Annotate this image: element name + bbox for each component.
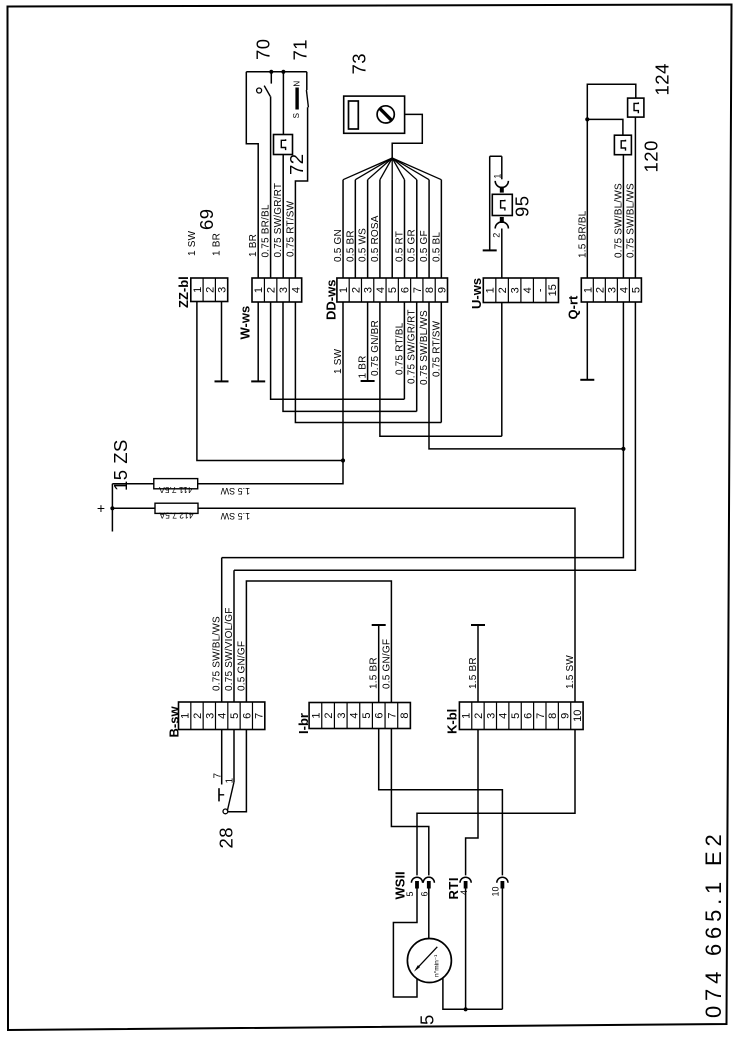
junction on top bus at box 72 branch [281,70,285,74]
svg-text:1 SW: 1 SW [187,230,198,256]
svg-text:2: 2 [323,712,335,718]
switch S70 stub [270,72,272,84]
svg-text:-: - [535,288,547,292]
svg-text:1: 1 [485,287,497,293]
wire Q-rt pin5 down to B-sw pin5 (line2) [234,302,635,570]
svg-text:1: 1 [253,287,265,293]
svg-text:0.5 BL: 0.5 BL [431,232,442,262]
svg-text:1.5 SW: 1.5 SW [220,511,250,521]
wire W-ws pin3 to DD-ws pin7 [283,302,417,411]
wire fuse 412 to K-bl pin10 [198,508,575,702]
magnet switch 71 blade [306,90,308,107]
wire B-sw pin5 up [233,570,235,702]
svg-text:+: + [97,500,105,516]
svg-text:0.75 BR/BL: 0.75 BR/BL [261,204,272,257]
svg-text:RTI: RTI [446,877,461,899]
svg-text:5: 5 [405,891,415,896]
wire U-ws pin2 down [501,303,503,436]
svg-text:1: 1 [582,287,594,293]
svg-text:71: 71 [290,39,311,61]
wire B-sw pin5 down to switch 28 blade [233,730,235,783]
inline connector WSII terminal 5 [411,877,422,883]
svg-text:2: 2 [594,287,606,293]
svg-text:7: 7 [386,712,398,718]
wire fuse 412 left lead [112,507,155,509]
svg-text:5: 5 [387,287,399,293]
connector Q-rt [581,278,641,302]
junction Q-rt pin1 branch [585,117,589,121]
svg-text:1: 1 [338,287,350,293]
svg-text:0.5 GN: 0.5 GN [333,229,344,262]
tachometer needle arrow [417,947,438,969]
wire from top bus to pulse box 72 [282,72,284,135]
connector half-circle 2 (device 95 bottom) [500,217,504,223]
svg-text:0.5 RT: 0.5 RT [394,231,405,262]
wire W-ws pin1 with end bar [257,302,259,381]
svg-text:95: 95 [512,195,533,217]
svg-text:10: 10 [490,886,500,896]
junction DD-ws pin8 line at Q-rt pin4 column [621,447,625,451]
svg-text:0.5 GF: 0.5 GF [419,230,430,262]
svg-text:0.75 SW/VIOL/GF: 0.75 SW/VIOL/GF [224,607,235,691]
svg-text:2: 2 [204,287,216,293]
svg-text:3: 3 [363,287,375,293]
svg-text:10: 10 [572,710,584,722]
svg-text:5: 5 [510,713,522,719]
wire DD-ws pin9 down [440,302,442,423]
svg-text:0.75 SW/BL/WS: 0.75 SW/BL/WS [212,616,223,691]
inline connector WSII terminal 6 [423,877,434,883]
pulse box 124 [628,98,644,117]
svg-text:7: 7 [254,713,266,719]
svg-text:7: 7 [535,713,547,719]
svg-text:1: 1 [310,712,322,718]
svg-text:6: 6 [420,891,430,896]
switch S70 contact circle [257,88,262,93]
wire box 120 to Q-rt pin4 [622,155,624,278]
device 73 inner rectangle [349,101,359,129]
connector ZZ-bl [191,278,228,302]
svg-text:2: 2 [473,713,485,719]
svg-text:1 BR: 1 BR [212,233,223,256]
svg-text:0.75 RT/SW: 0.75 RT/SW [431,320,442,377]
wire DD-ws pin8 to Q-rt pin4 column [429,302,623,449]
svg-text:2: 2 [192,713,204,719]
magnet switch 71 feed wire [306,72,308,90]
wire W-ws pin2 upper [270,96,272,278]
svg-text:412 7.5A: 412 7.5A [159,511,193,521]
svg-text:3: 3 [606,287,618,293]
svg-text:0.75 SW/GR/RT: 0.75 SW/GR/RT [407,309,418,384]
svg-text:DD-ws: DD-ws [324,280,339,320]
wire WSII-5 to tachometer (S-path) [393,889,417,998]
svg-text:8: 8 [424,287,436,293]
wire I-br pin7 down to WSII-6 [391,729,428,876]
wire stub with end bar (device 95 side branch) [490,156,502,250]
wire DD-ws pin6 down [403,302,405,399]
magnet 71 bar [295,88,298,110]
wire W-ws pin4 to DD-ws pin9 [295,302,441,423]
svg-text:4: 4 [348,712,360,718]
wire DD-ws pin3 with end bar [367,302,369,381]
connector half-circle 1 (device 95 top) [495,181,508,188]
svg-text:3: 3 [278,287,290,293]
svg-text:6: 6 [399,287,411,293]
wire I-br pin6 down to terminal 10 column [379,729,503,876]
inline connector terminal 10 [497,877,508,883]
switch 28 pivot circle [223,809,228,814]
svg-text:5: 5 [361,712,373,718]
tachometer gauge circle [407,939,451,983]
wire DD-ws pin7 down [416,302,418,411]
svg-text:4: 4 [522,287,534,293]
wire W-ws pin4 upper [295,107,307,278]
svg-text:0.5 BR: 0.5 BR [345,230,356,262]
svg-text:2: 2 [266,287,278,293]
svg-text:I-br: I-br [296,713,311,734]
svg-text:N: N [293,81,302,87]
svg-text:2: 2 [497,287,509,293]
inline connector RTI terminal 4 [460,877,471,883]
svg-text:0.75 SW/BL/WS: 0.75 SW/BL/WS [419,310,430,385]
svg-text:K-bl: K-bl [445,709,460,734]
wire from device 73 to fan point [392,114,422,158]
wire W-ws pin3 upper (below box 72) [282,155,284,279]
svg-text:1.5 SW: 1.5 SW [220,486,250,496]
svg-text:4: 4 [459,890,469,895]
svg-text:0.5 GN/GF: 0.5 GN/GF [381,639,392,689]
wire switch 28 to B-sw pin6 [228,730,247,812]
wire B-sw pin4 up [221,558,223,702]
svg-text:73: 73 [349,53,370,75]
wire DD-ws pin4 to U-ws pin2 link [380,302,502,436]
svg-text:1: 1 [192,287,204,293]
svg-text:1 BR: 1 BR [248,234,259,257]
svg-text:72: 72 [286,153,307,175]
svg-text:28: 28 [216,827,237,849]
svg-text:8: 8 [399,712,411,718]
svg-text:0.75 RT/BL: 0.75 RT/BL [394,322,405,375]
wire K-bl pin2 down to RTI-4 [466,730,478,876]
wire Q-rt pin1 below with end bar [586,302,588,380]
switch S70 blade [264,86,270,97]
junction on top bus at switch 70 [269,70,273,74]
wire fuse 411 left lead [112,483,153,485]
svg-text:9: 9 [436,287,448,293]
connector K-bl [459,702,583,730]
wire supply vertical [111,484,113,532]
svg-text:ZZ-bl: ZZ-bl [176,276,191,308]
svg-text:4: 4 [290,287,302,293]
svg-text:U-ws: U-ws [469,278,484,309]
svg-text:1: 1 [461,713,473,719]
wire device 95 to U-ws pin2 [501,229,503,279]
svg-text:411 7.5A: 411 7.5A [159,485,193,495]
svg-text:7: 7 [412,287,424,293]
fuse 412 box [155,503,198,513]
branch Q-rt pin1 to box 120 top [587,119,623,135]
svg-text:2: 2 [350,287,362,293]
svg-text:3: 3 [204,713,216,719]
wire WSII-6 to tachometer top [428,889,430,939]
junction RTI-4 at bottom bus [464,1007,468,1011]
svg-text:120: 120 [641,140,662,172]
wire fan-out from device 73 to DD-ws pins [343,158,392,180]
wire terminal 10 down to bottom bus [501,889,503,1010]
svg-text:0.5 WS: 0.5 WS [358,228,369,262]
fuse 411 box [154,479,198,489]
pulse box 120 [614,135,631,155]
svg-text:B-sw: B-sw [167,706,182,738]
svg-text:3: 3 [485,713,497,719]
svg-text:6: 6 [522,713,534,719]
svg-text:0.5 GN/GF: 0.5 GN/GF [236,641,247,691]
wire Q-rt pin1 up to boxes 120/124 [587,84,636,278]
wire I-br pin6 up with end bar [378,625,380,703]
wire K-bl pin10 down to WSII-5 (line C) [417,730,575,876]
wire ZZ-bl pin1 down to fuse junction [197,302,343,461]
svg-text:3: 3 [217,287,229,293]
svg-text:9: 9 [560,713,572,719]
svg-text:6: 6 [374,712,386,718]
svg-text:1 SW: 1 SW [333,348,344,374]
pulse sender box 72 [274,135,293,155]
wire tachometer to bottom bus [443,978,503,1009]
svg-text:4: 4 [618,287,630,293]
wire W-ws pin2 to DD-ws pin6 [271,302,405,399]
node top bus wire (switch 70 / magnet 71 feed) [246,71,306,73]
wire ZZ-bl pin3 with end bar [221,302,223,382]
svg-text:124: 124 [652,63,673,95]
connector U-ws [483,278,558,303]
svg-text:6: 6 [241,713,253,719]
svg-text:1.5 SW: 1.5 SW [565,655,576,689]
connector W-ws [252,278,302,302]
wire Q-rt pin4 down to B-sw pin4 (line1) [222,302,624,558]
svg-text:0.5 ROSA: 0.5 ROSA [370,215,381,262]
connector I-br [309,703,410,729]
svg-text:4: 4 [217,713,229,719]
wire RTI-4 down to bottom bus [465,889,467,1010]
svg-text:2: 2 [491,233,501,238]
wire B-sw pin6 to I-br pin7 (line3) [246,581,391,703]
wire box 124 to Q-rt pin5 [634,117,636,278]
device 73 tachograph sender box [344,96,405,133]
svg-text:4: 4 [375,287,387,293]
svg-text:0.75 SW/GR/RT: 0.75 SW/GR/RT [273,183,284,258]
svg-text:15: 15 [547,284,559,296]
svg-text:0.75 RT/SW: 0.75 RT/SW [285,200,296,257]
svg-text:Q-rt: Q-rt [566,295,581,320]
svg-text:1: 1 [493,174,503,179]
svg-text:0.5 GR: 0.5 GR [407,229,418,262]
svg-text:5: 5 [630,287,642,293]
connector B-sw [179,702,265,730]
svg-text:0.75 GN/BR: 0.75 GN/BR [370,320,381,376]
svg-text:7: 7 [213,773,224,779]
svg-text:3: 3 [510,287,522,293]
svg-text:69: 69 [196,208,217,230]
svg-text:5: 5 [229,713,241,719]
pulse box 95 [492,194,512,215]
svg-text:W-ws: W-ws [238,306,253,340]
junction DD-ws pin1 / ZZ-bl pin1 [341,458,345,462]
svg-text:70: 70 [253,38,274,60]
svg-text:4: 4 [498,713,510,719]
svg-text:3: 3 [336,712,348,718]
wire device 95 upper lead [501,156,503,179]
wire DD-ws pin1 down to fuse 411 lead [198,302,343,484]
svg-text:8: 8 [547,713,559,719]
svg-text:1: 1 [225,778,236,784]
svg-text:1 BR: 1 BR [358,355,369,378]
wire W-ws pin1 upper bracket [246,72,258,278]
device 73 circle with slash [377,106,394,123]
svg-text:074 665.1 E2: 074 665.1 E2 [701,830,726,1019]
svg-text:5: 5 [417,1015,438,1025]
connector DD-ws [337,278,448,302]
switch 28 blade [227,782,234,811]
wire K-bl pin2 up with end bar [477,625,479,702]
wire B-sw pin4 down to switch 28 [221,730,223,785]
svg-text:S: S [292,113,301,118]
svg-text:n°min⁻¹: n°min⁻¹ [433,954,441,977]
junction supply / fuse 412 [110,506,114,510]
switch 28 contact plate [218,788,220,801]
